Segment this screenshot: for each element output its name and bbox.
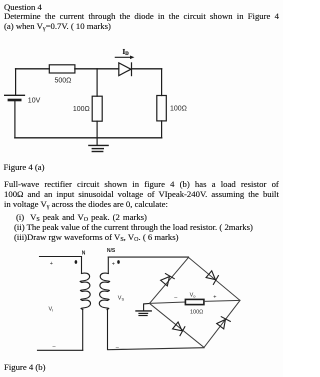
svg-text:ID: ID (123, 48, 130, 57)
svg-text:100Ω: 100Ω (73, 106, 90, 113)
svg-text:10V: 10V (28, 98, 41, 105)
svg-text:–: – (174, 295, 178, 301)
svg-text:Vo: Vo (190, 293, 197, 299)
svg-text:–: – (53, 344, 57, 350)
svg-text:Vi: Vi (49, 307, 54, 313)
svg-text:+: + (213, 294, 216, 300)
svg-text:+: + (112, 262, 115, 268)
svg-text:100Ω: 100Ω (170, 106, 187, 113)
svg-text:100Ω: 100Ω (190, 310, 203, 316)
svg-text:N/S: N/S (107, 248, 116, 254)
svg-text:+: + (50, 261, 53, 267)
svg-text:500Ω: 500Ω (54, 77, 71, 84)
svg-text:N: N (82, 251, 86, 257)
svg-text:VS: VS (118, 296, 125, 302)
